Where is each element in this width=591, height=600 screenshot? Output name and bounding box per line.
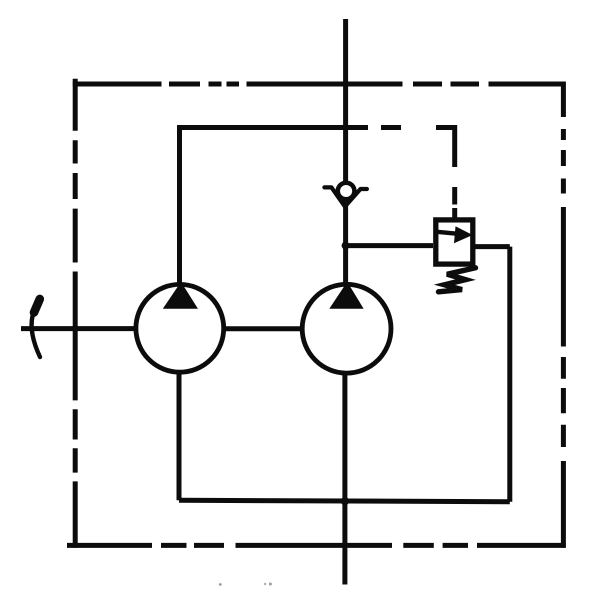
- relief valve RV1 body: [436, 220, 473, 264]
- wire: pump P1 bottom line up from return: [177, 374, 182, 501]
- check valve CV1 seat: [324, 187, 367, 206]
- enclosure border bottom (dashed): [67, 543, 566, 548]
- rotation arrow arc: [32, 316, 40, 357]
- enclosure border top (dashed): [73, 82, 566, 87]
- pump P2 circle: [302, 284, 391, 373]
- rotation arrow head: [34, 299, 40, 313]
- wire: pump P2 outlet line down through enclosure to bottom: [342, 374, 347, 585]
- relief valve RV1 arrow head: [454, 226, 473, 243]
- wire: branch from junction to relief valve RV1 inlet: [346, 243, 433, 248]
- wire: main pressure line vertical (check valve to pump P2 inlet): [343, 201, 348, 284]
- relief valve RV1 spring: [439, 268, 476, 292]
- pump P1 flow triangle: [164, 283, 196, 308]
- wire: drive shaft line: [21, 326, 135, 331]
- enclosure border left (dashed): [73, 79, 78, 548]
- check valve CV1 ball circle: [338, 183, 355, 200]
- enclosure border right (dashed): [561, 82, 566, 548]
- relief valve RV1 arrow shaft: [437, 232, 458, 234]
- wire: relief valve RV1 outlet to right drop: [475, 244, 510, 249]
- wire: dashed continuation of top line toward pilot: [381, 125, 401, 130]
- node: junction of return line and pump P2 outlet: [341, 497, 349, 505]
- wire: connector between pump P1 and pump P2: [226, 326, 300, 331]
- wire: right return line down: [507, 247, 512, 502]
- wire: bottom return line across: [179, 500, 510, 502]
- pump P2 flow triangle: [331, 283, 363, 308]
- faint scan smudge bottom: [219, 583, 272, 586]
- node: junction of check valve line and relief branch: [342, 242, 350, 250]
- pilot line (dashed) corner and drop to relief valve: [436, 128, 455, 219]
- wire: pump P1 top line up and right to main line: [180, 128, 369, 285]
- pump P1 circle: [136, 284, 224, 372]
- wire: main pressure line vertical (top section above check valve): [343, 19, 348, 181]
